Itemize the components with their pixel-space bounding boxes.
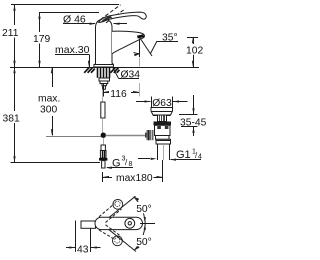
hose stub below nut: [103, 86, 106, 89]
svg-text:211: 211: [2, 28, 19, 39]
supply hose column: [101, 89, 105, 133]
svg-text:50°: 50°: [136, 204, 152, 215]
svg-text:43: 43: [77, 244, 89, 255]
lever handle (rest position): [99, 12, 147, 22]
dimension max180: [103, 160, 163, 182]
dimension 116: [104, 58, 140, 97]
svg-text:50°: 50°: [136, 237, 152, 248]
aerator (dark): [137, 34, 144, 38]
faucet base joint line: [94, 64, 113, 66]
label 35deg leader: [151, 41, 179, 54]
pop-up rod ball joint: [101, 133, 106, 138]
lower dashed handle arm: [99, 225, 122, 246]
label Ø34 leader: [113, 68, 139, 79]
lever raised (dashed): [101, 5, 126, 23]
dimension 381 line: [13, 67, 15, 163]
label max.30 leader: [55, 55, 90, 68]
threaded shank: [98, 67, 110, 77]
wire hose-length reference line: [46, 136, 101, 138]
lower arc arrow: [134, 224, 146, 251]
svg-text:Ø63: Ø63: [152, 98, 172, 109]
svg-text:Ø34: Ø34: [121, 69, 141, 80]
svg-text:4: 4: [198, 154, 202, 161]
wire second reference line (lever rest level): [39, 12, 99, 14]
drain seal band (dark): [154, 122, 172, 126]
angle 35 vertical leg: [139, 39, 141, 58]
svg-text:G1: G1: [176, 149, 191, 161]
upper dashed handle arm: [99, 199, 123, 222]
drain lower body: [156, 136, 170, 140]
wire top reference line (raised lever level): [11, 4, 119, 6]
label G1 1/4 leader: [138, 158, 201, 161]
svg-text:max180: max180: [116, 173, 153, 184]
dimension Ø63: [136, 97, 188, 108]
drain pop-up waste assembly: [145, 108, 173, 161]
deck hatch left: [84, 67, 95, 72]
rod below joint: [103, 138, 105, 145]
bottom reference line (381 end): [11, 162, 101, 164]
aerator ring (top view): [125, 218, 135, 228]
svg-text:G: G: [112, 158, 121, 170]
tailpipe: [157, 144, 159, 160]
angle 35 arc arrow: [134, 53, 140, 57]
angle 35 inclined leg: [140, 38, 152, 56]
pop-up rod horizontal (to drain): [106, 135, 148, 137]
deck hatch right: [110, 67, 119, 72]
handle stub (top view): [81, 221, 96, 228]
deck / countertop line: [10, 67, 199, 69]
text knockout backgrounds: [1, 25, 203, 253]
mounting nut steps: [100, 81, 108, 86]
dimension 179 line: [38, 13, 40, 68]
dimension max.300 line: [51, 67, 53, 136]
hose lower fitting: [99, 145, 107, 168]
faucet body (side view): [94, 19, 114, 67]
svg-text:179: 179: [33, 34, 50, 45]
svg-text:35°: 35°: [162, 32, 178, 43]
svg-text:300: 300: [40, 105, 57, 116]
upper angle leg: [109, 196, 136, 217]
rod clamp knob: [147, 130, 154, 140]
shank washer: [99, 78, 110, 81]
svg-text:max.30: max.30: [55, 44, 90, 56]
dimension 211 line: [13, 5, 15, 68]
drain flange: [151, 108, 173, 116]
label Ø46 leader: [63, 23, 127, 25]
faucet pill (top view): [95, 217, 143, 229]
svg-text:max.: max.: [38, 94, 60, 105]
dimension 35-45: [179, 95, 198, 136]
drain body: [155, 125, 171, 135]
drain box: [156, 139, 171, 144]
svg-text:381: 381: [3, 114, 20, 125]
centerline (angle base): [140, 223, 155, 225]
svg-text:35-45: 35-45: [180, 117, 207, 128]
lever neck shadow: [101, 16, 112, 22]
svg-text:116: 116: [110, 89, 127, 100]
drain neck (thread): [158, 115, 167, 122]
svg-text:8: 8: [129, 161, 133, 168]
label G3/8 leader: [106, 167, 133, 169]
dimension 102: [187, 37, 198, 67]
svg-text:Ø 46: Ø 46: [63, 13, 86, 25]
svg-text:102: 102: [186, 45, 203, 56]
dimension 43: [66, 221, 101, 253]
lower angle leg: [109, 229, 137, 251]
spout: [112, 31, 144, 54]
upper arc arrow: [134, 197, 146, 223]
